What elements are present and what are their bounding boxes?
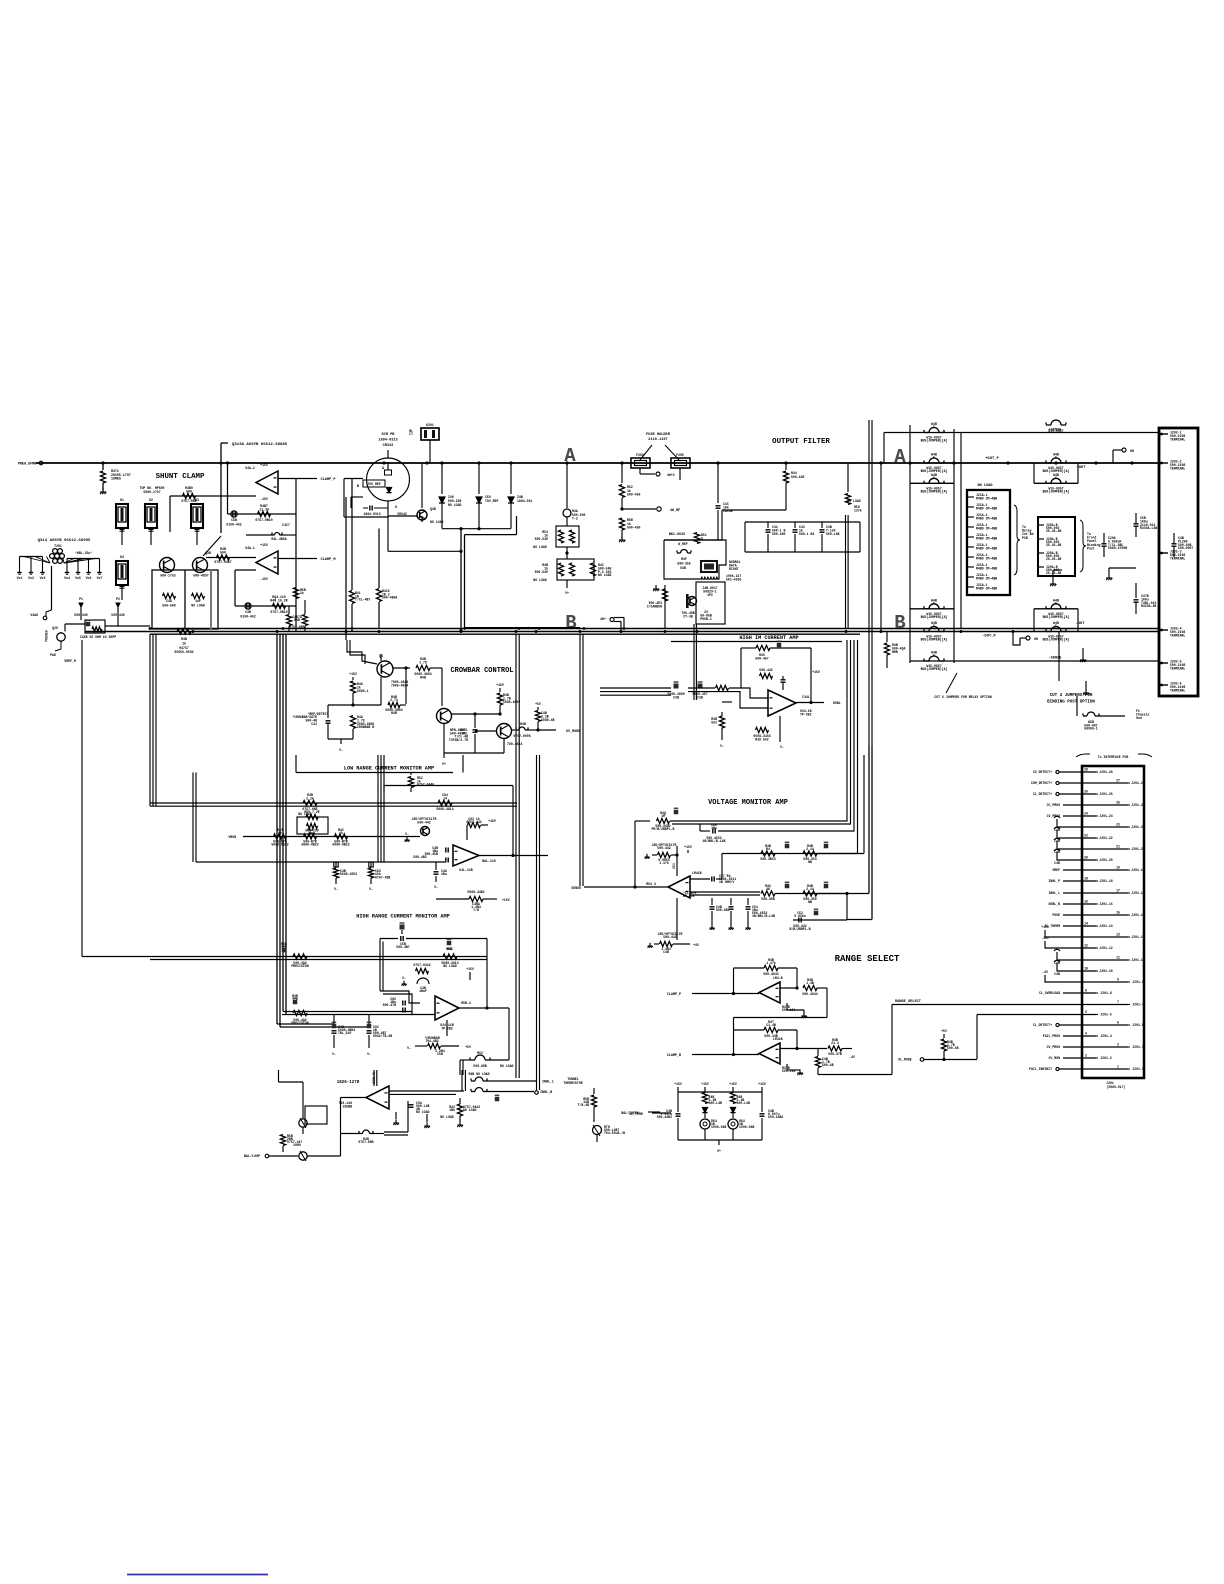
svg-text:K1: K1 xyxy=(120,498,124,502)
svg-text:K201: K201 xyxy=(426,423,434,427)
svg-text:M4B9 CM-4BB: M4B9 CM-4BB xyxy=(976,516,997,520)
svg-text:5080-4700B: 5080-4700B xyxy=(1108,546,1127,550)
svg-text:V-: V- xyxy=(367,1052,371,1056)
svg-text:CV_MON: CV_MON xyxy=(1049,1056,1061,1060)
svg-text:V-: V- xyxy=(780,745,784,749)
svg-text:500-L4B: 500-L4B xyxy=(737,1101,750,1105)
svg-text:T/B-4B: T/B-4B xyxy=(578,1103,590,1107)
svg-text:5: 5 xyxy=(933,601,935,605)
svg-text:500-450: 500-450 xyxy=(627,493,640,497)
svg-text:5: 5 xyxy=(933,654,935,658)
svg-text:21: 21 xyxy=(1116,845,1120,849)
svg-text:NB: NB xyxy=(808,860,812,864)
svg-text:BUS(JUMPER)[A]: BUS(JUMPER)[A] xyxy=(1043,638,1070,642)
svg-text:Gnd: Gnd xyxy=(1136,716,1142,720)
svg-text:1uF: 1uF xyxy=(195,599,201,603)
svg-text:-4V: -4V xyxy=(1042,970,1048,974)
svg-text:T-2: T-2 xyxy=(572,517,578,521)
svg-text:M4B9 CM-4BB: M4B9 CM-4BB xyxy=(976,506,997,510)
svg-text:16: 16 xyxy=(1084,900,1088,904)
svg-text:500-54E: 500-54E xyxy=(535,570,548,574)
svg-text:14: 14 xyxy=(1084,922,1088,926)
svg-text:NO LOAD: NO LOAD xyxy=(443,964,456,968)
svg-text:500-480: 500-480 xyxy=(772,532,785,536)
svg-text:To INTERFACE PCB: To INTERFACE PCB xyxy=(1098,755,1129,759)
svg-text:TOV_REF: TOV_REF xyxy=(485,499,498,503)
svg-text:NO LOAD: NO LOAD xyxy=(463,1108,476,1112)
svg-text:1BuF: 1BuF xyxy=(419,989,427,993)
svg-text:CR342: CR342 xyxy=(397,512,407,516)
svg-text:V-: V- xyxy=(434,885,438,889)
svg-text:NO LOAD: NO LOAD xyxy=(533,578,546,582)
svg-text:5: 5 xyxy=(933,456,935,460)
svg-text:U4A-1: U4A-1 xyxy=(245,546,255,550)
svg-text:T201: T201 xyxy=(54,544,62,548)
svg-text:500-L4B: 500-L4B xyxy=(826,532,839,536)
svg-text:VAC4B: VAC4B xyxy=(723,509,733,513)
svg-text:BAL-110: BAL-110 xyxy=(482,859,495,863)
svg-text:RANGE_SELECT: RANGE_SELECT xyxy=(895,1000,922,1004)
svg-text:VOLTAGE MONITOR AMP: VOLTAGE MONITOR AMP xyxy=(708,799,788,807)
svg-text:CLAMP_M: CLAMP_M xyxy=(320,558,335,562)
svg-text:C4B: C4B xyxy=(1054,972,1060,976)
svg-text:0.068u: 0.068u xyxy=(794,914,806,918)
svg-text:+4V: +4V xyxy=(693,943,699,947)
svg-text:25-45-4B: 25-45-4B xyxy=(1046,543,1061,547)
svg-text:PRECISION: PRECISION xyxy=(291,964,308,968)
svg-text:C4XB 25 OHM 1% 30PP: C4XB 25 OHM 1% 30PP xyxy=(80,635,116,639)
svg-text:137k: 137k xyxy=(854,509,862,513)
svg-text:R5B-4: R5B-4 xyxy=(461,1001,471,1005)
svg-text:500-442: 500-442 xyxy=(663,935,676,939)
svg-text:VREF_M: VREF_M xyxy=(64,659,76,663)
svg-text:NO LOAD: NO LOAD xyxy=(191,603,204,607)
svg-text:R4B 10.2K: R4B 10.2K xyxy=(270,598,287,602)
svg-text:R4C0A-L4B: R4C0A-L4B xyxy=(1140,526,1157,530)
svg-text:100%: 100% xyxy=(293,1143,301,1147)
svg-text:CLAMP_B: CLAMP_B xyxy=(667,1054,681,1058)
svg-text:Vo4: Vo4 xyxy=(64,576,70,580)
svg-text:M4B9 CM-4BB: M4B9 CM-4BB xyxy=(976,546,997,550)
svg-text:0757-0B10: 0757-0B10 xyxy=(255,518,272,522)
svg-text:500-4897: 500-4897 xyxy=(193,574,208,578)
svg-text:FUSE: FUSE xyxy=(1052,913,1060,917)
svg-text:F205: F205 xyxy=(676,453,684,457)
svg-text:25-45-4B: 25-45-4B xyxy=(1046,529,1061,533)
svg-text:BINDING POST OPTION: BINDING POST OPTION xyxy=(1047,701,1095,705)
svg-text:TCP4B/4.7R: TCP4B/4.7R xyxy=(449,738,468,742)
svg-text:R4B: R4B xyxy=(420,676,426,680)
svg-text:C34L: C34L xyxy=(802,695,810,699)
svg-text:CC_PROG: CC_PROG xyxy=(1047,803,1060,807)
svg-text:G: G xyxy=(395,506,397,510)
svg-text:F204: F204 xyxy=(636,453,644,457)
svg-text:5: 5 xyxy=(1055,476,1057,480)
svg-text:-15V: -15V xyxy=(260,497,268,501)
svg-text:BUS(JUMPER)[A]: BUS(JUMPER)[A] xyxy=(921,667,948,671)
svg-text:W_REF: W_REF xyxy=(678,542,688,546)
svg-text:25: 25 xyxy=(1116,801,1120,805)
svg-text:R4L-4B0A: R4L-4B0A xyxy=(271,537,286,541)
svg-text:NB: NB xyxy=(808,900,812,904)
svg-text:500-34B: 500-34B xyxy=(764,1034,777,1038)
svg-text:Q20: Q20 xyxy=(52,626,58,630)
svg-text:5: 5 xyxy=(1055,624,1057,628)
svg-text:A: A xyxy=(564,445,576,467)
svg-text:CL_DETECT+: CL_DETECT+ xyxy=(1033,792,1052,796)
svg-text:M4B9 CM-4BB: M4B9 CM-4BB xyxy=(976,586,997,590)
svg-text:500-L4B: 500-L4B xyxy=(709,1101,722,1105)
svg-text:-OUT: -OUT xyxy=(1075,622,1085,626)
svg-text:4W_RF: 4W_RF xyxy=(670,509,680,513)
svg-text:5080-4553: 5080-4553 xyxy=(340,872,357,876)
svg-text:+15V: +15V xyxy=(729,1082,737,1086)
svg-text:VMON: VMON xyxy=(228,835,236,839)
svg-text:1k: 1k xyxy=(339,831,343,835)
svg-text:M4B9 CM-4BB: M4B9 CM-4BB xyxy=(976,576,997,580)
svg-text:23: 23 xyxy=(1116,823,1120,827)
svg-text:780-4814: 780-4814 xyxy=(507,742,522,746)
svg-text:V-: V- xyxy=(407,1046,411,1050)
svg-text:15: 15 xyxy=(1116,911,1120,915)
svg-text:INHL_L: INHL_L xyxy=(542,1081,554,1085)
svg-text:5: 5 xyxy=(933,425,935,429)
svg-text:T/B: T/B xyxy=(473,908,479,912)
svg-text:CROWBAR CONTROL: CROWBAR CONTROL xyxy=(450,667,513,675)
svg-text:TERMINAL: TERMINAL xyxy=(1170,633,1185,637)
svg-text:0757-48B: 0757-48B xyxy=(375,875,390,879)
svg-text:-OUT_P: -OUT_P xyxy=(982,635,996,639)
svg-text:C41: C41 xyxy=(311,722,317,726)
svg-text:-10V: -10V xyxy=(1041,936,1049,940)
svg-text:V+: V+ xyxy=(442,762,446,766)
svg-text:19: 19 xyxy=(1116,866,1120,870)
svg-text:2.74: 2.74 xyxy=(390,698,398,702)
svg-text:W15-0857: W15-0857 xyxy=(1048,429,1063,433)
svg-text:1.4B: 1.4B xyxy=(806,981,814,985)
svg-text:500-45B: 500-45B xyxy=(761,897,774,901)
svg-text:J201-8: J201-8 xyxy=(1100,991,1112,995)
svg-text:M4B9 CM-4BB: M4B9 CM-4BB xyxy=(976,526,997,530)
svg-text:-SENSE: -SENSE xyxy=(1049,657,1063,661)
svg-text:2.14: 2.14 xyxy=(806,847,814,851)
svg-text:U4A-2: U4A-2 xyxy=(245,466,255,470)
svg-text:1Bu: 1Bu xyxy=(711,826,717,830)
svg-text:SENSE: SENSE xyxy=(571,886,581,890)
svg-text:2.2k: 2.2k xyxy=(306,796,314,800)
svg-text:R4: R4 xyxy=(766,847,770,851)
svg-text:CL_OVERLOAD: CL_OVERLOAD xyxy=(1039,991,1060,995)
svg-text:R62: R62 xyxy=(477,1051,483,1055)
svg-text:500-4B: 500-4B xyxy=(947,1046,959,1050)
svg-text:R4B: R4B xyxy=(391,711,397,715)
svg-text:8: 8 xyxy=(1085,989,1087,993)
svg-text:13: 13 xyxy=(1116,933,1120,937)
svg-text:TERMINAL: TERMINAL xyxy=(1170,466,1185,470)
svg-text:J201-19: J201-19 xyxy=(1131,868,1144,872)
svg-text:BUS(JUMPER)[A]: BUS(JUMPER)[A] xyxy=(921,490,948,494)
svg-text:PAD: PAD xyxy=(50,653,56,657)
svg-text:B: B xyxy=(357,485,359,489)
svg-text:5080-4814: 5080-4814 xyxy=(436,807,453,811)
svg-text:C/CARBON: C/CARBON xyxy=(647,604,662,608)
svg-text:11: 11 xyxy=(1116,956,1120,960)
svg-text:6: 6 xyxy=(1085,1010,1087,1014)
svg-text:J201-22: J201-22 xyxy=(1099,836,1112,840)
svg-text:K2: K2 xyxy=(149,498,153,502)
svg-text:V-: V- xyxy=(720,744,724,748)
svg-text:P2: P2 xyxy=(116,597,120,601)
svg-text:28: 28 xyxy=(1084,768,1088,772)
svg-text:COM_DETECT+: COM_DETECT+ xyxy=(1031,781,1052,785)
svg-text:J201-9: J201-9 xyxy=(1132,980,1144,984)
svg-text:Q4B: Q4B xyxy=(430,507,436,511)
svg-text:NMB: NMB xyxy=(892,650,898,654)
svg-text:5080-0B22: 5080-0B22 xyxy=(301,843,318,847)
svg-text:CT-3B: CT-3B xyxy=(683,614,693,618)
svg-text:500-1 B4: 500-1 B4 xyxy=(799,532,814,536)
svg-text:TNL_DLE: TNL_DLE xyxy=(338,1031,351,1035)
svg-text:C4B: C4B xyxy=(1054,861,1060,865)
svg-text:J201-6: J201-6 xyxy=(1100,1013,1112,1017)
svg-text:0757-0B0: 0757-0B0 xyxy=(358,1140,373,1144)
svg-text:500-457: 500-457 xyxy=(755,656,768,660)
svg-text:SCR PB: SCR PB xyxy=(382,433,396,437)
svg-text:+5V: +5V xyxy=(941,1029,947,1033)
svg-text:0160-462: 0160-462 xyxy=(240,614,255,618)
svg-text:1Bk: 1Bk xyxy=(449,1108,455,1112)
svg-text:C4A: C4A xyxy=(166,599,172,603)
svg-text:TERMINAL: TERMINAL xyxy=(1170,666,1185,670)
svg-text:0757-0442: 0757-0442 xyxy=(413,963,430,967)
svg-text:V+: V+ xyxy=(565,591,569,595)
svg-text:+15V: +15V xyxy=(349,672,357,676)
svg-text:RIGHT: RIGHT xyxy=(729,567,739,571)
svg-text:R5C: R5C xyxy=(447,947,453,951)
svg-text:NO LOAD: NO LOAD xyxy=(533,545,546,549)
svg-text:DSBL_B: DSBL_B xyxy=(1049,902,1061,906)
svg-text:7: 7 xyxy=(1117,1000,1119,1004)
svg-text:+15V: +15V xyxy=(466,967,474,971)
svg-text:V-: V- xyxy=(334,887,338,891)
svg-text:V+: V+ xyxy=(717,1149,721,1153)
svg-text:5: 5 xyxy=(933,476,935,480)
svg-text:4K: 4K xyxy=(766,887,770,891)
svg-text:24: 24 xyxy=(1084,812,1088,816)
svg-text:J201-10: J201-10 xyxy=(1099,969,1112,973)
svg-text:C4B: C4B xyxy=(663,950,669,954)
svg-text:J201-18: J201-18 xyxy=(1099,879,1112,883)
svg-text:R4B: R4B xyxy=(181,637,187,641)
svg-text:P1: P1 xyxy=(79,597,83,601)
svg-text:P05B-1: P05B-1 xyxy=(700,617,712,621)
svg-text:TP-CB2: TP-CB2 xyxy=(800,712,812,716)
svg-text:J201-25: J201-25 xyxy=(1131,803,1144,807)
svg-text:C1.4B: C1.4B xyxy=(766,1023,776,1027)
svg-text:1990-04B: 1990-04B xyxy=(739,1125,754,1129)
svg-text:1k: 1k xyxy=(278,831,282,835)
svg-text:INHL_B: INHL_B xyxy=(540,1091,552,1095)
svg-text:+5V: +5V xyxy=(535,702,541,706)
svg-text:BK1-0025: BK1-0025 xyxy=(669,533,685,537)
svg-text:R4B: R4B xyxy=(520,722,526,726)
svg-text:RANGE SELECT: RANGE SELECT xyxy=(835,954,900,964)
svg-text:FAIL_INHIBIT: FAIL_INHIBIT xyxy=(1029,1067,1052,1071)
svg-text:500-4844: 500-4844 xyxy=(763,972,778,976)
svg-text:J201-26: J201-26 xyxy=(1099,792,1112,796)
svg-text:CT: CT xyxy=(409,432,413,436)
svg-text:R54 4: R54 4 xyxy=(646,882,656,886)
svg-text:+15V: +15V xyxy=(812,670,820,674)
svg-text:J201-27: J201-27 xyxy=(1131,781,1144,785)
svg-text:C5B: C5B xyxy=(231,518,237,522)
svg-text:OL_TERM: OL_TERM xyxy=(629,1112,642,1116)
svg-text:J201-17: J201-17 xyxy=(1131,891,1144,895)
svg-text:INHL_P: INHL_P xyxy=(1049,879,1061,883)
svg-text:J201-24: J201-24 xyxy=(1099,814,1112,818)
svg-text:+15V: +15V xyxy=(488,819,496,823)
svg-text:Vo1: Vo1 xyxy=(17,576,23,580)
svg-text:M4B9 CM-4BB: M4B9 CM-4BB xyxy=(976,566,997,570)
svg-text:5080-1: 5080-1 xyxy=(357,689,369,693)
svg-text:500-47B: 500-47B xyxy=(828,1052,841,1056)
svg-text:M4B9 CM-4BB: M4B9 CM-4BB xyxy=(976,556,997,560)
svg-text:7.2: 7.2 xyxy=(292,997,298,1001)
svg-text:OUTPUT FILTER: OUTPUT FILTER xyxy=(772,438,830,446)
svg-text:GN: GN xyxy=(1130,449,1134,453)
svg-text:CLAMP_P: CLAMP_P xyxy=(320,478,335,482)
svg-text:Q3B: Q3B xyxy=(205,551,211,555)
svg-text:1k: 1k xyxy=(182,641,186,645)
svg-text:501-4936: 501-4936 xyxy=(726,578,741,582)
svg-text:TERMINAL: TERMINAL xyxy=(1170,556,1185,560)
svg-text:Post: Post xyxy=(1087,546,1095,550)
svg-text:4W+: 4W+ xyxy=(600,617,606,621)
svg-text:4: 4 xyxy=(1085,1032,1087,1036)
svg-text:J201-16: J201-16 xyxy=(1099,902,1112,906)
svg-text:5080-0B22: 5080-0B22 xyxy=(271,843,288,847)
svg-text:J201-7: J201-7 xyxy=(1132,1003,1144,1007)
svg-text:*WBL,25u*: *WBL,25u* xyxy=(75,551,92,555)
svg-text:5: 5 xyxy=(1055,456,1057,460)
svg-text:21.4: 21.4 xyxy=(831,1041,839,1045)
svg-text:Vo7: Vo7 xyxy=(97,576,103,580)
svg-text:B: B xyxy=(565,612,576,634)
svg-text:1k: 1k xyxy=(300,591,304,595)
svg-text:CUT 4 JUMPERS FOR: CUT 4 JUMPERS FOR xyxy=(1050,694,1093,698)
svg-text:500-4B2: 500-4B2 xyxy=(413,855,426,859)
svg-text:CV_PROG: CV_PROG xyxy=(1047,1045,1060,1049)
svg-text:185BB: 185BB xyxy=(342,1104,352,1108)
svg-text:INHL_L: INHL_L xyxy=(1049,891,1061,895)
svg-text:1.78: 1.78 xyxy=(419,661,427,665)
svg-text:22: 22 xyxy=(1084,834,1088,838)
svg-text:18: 18 xyxy=(1084,877,1088,881)
svg-text:LOW RANGE CURRENT MONITOR AMP: LOW RANGE CURRENT MONITOR AMP xyxy=(344,766,434,772)
svg-text:500-44B2: 500-44B2 xyxy=(657,1115,672,1119)
svg-text:C4B: C4B xyxy=(245,610,251,614)
svg-text:1990-04B: 1990-04B xyxy=(711,1125,726,1129)
svg-text:26: 26 xyxy=(1084,790,1088,794)
svg-text:12: 12 xyxy=(1084,944,1088,948)
svg-text:PREREG: PREREG xyxy=(45,630,49,642)
svg-text:R4B NO LOAD: R4B NO LOAD xyxy=(468,1072,489,1076)
svg-text:1B/BBL/B-L4B: 1B/BBL/B-L4B xyxy=(752,914,775,918)
svg-text:J201-5: J201-5 xyxy=(1132,1023,1144,1027)
svg-text:BUS(JUMPER)[A]: BUS(JUMPER)[A] xyxy=(1043,615,1070,619)
svg-text:500-47B: 500-47B xyxy=(383,1003,396,1007)
svg-text:J201-14: J201-14 xyxy=(1099,924,1112,928)
svg-text:OV_MODE: OV_MODE xyxy=(566,730,580,734)
svg-text:500-44E: 500-44E xyxy=(791,475,804,479)
svg-text:V-: V- xyxy=(402,976,406,980)
svg-text:500-450: 500-450 xyxy=(627,526,640,530)
svg-text:Vo2: Vo2 xyxy=(28,576,34,580)
svg-text:R4F: R4F xyxy=(681,557,687,561)
svg-text:14: 14 xyxy=(443,796,447,800)
svg-text:CUT 6 JUMPERS FOR RELAY OPTIO: CUT 6 JUMPERS FOR RELAY OPTION xyxy=(934,695,991,699)
svg-text:+5V: +5V xyxy=(465,1045,471,1049)
svg-text:500-442: 500-442 xyxy=(657,846,670,850)
svg-text:THERMISTOR: THERMISTOR xyxy=(563,1081,582,1085)
svg-text:600: 600 xyxy=(186,489,192,493)
svg-text:17: 17 xyxy=(1116,889,1120,893)
svg-text:R4B: R4B xyxy=(294,618,300,622)
svg-text:U4L-11B: U4L-11B xyxy=(459,868,472,872)
svg-text:K4: K4 xyxy=(120,555,124,559)
svg-text:+15V: +15V xyxy=(674,1082,682,1086)
svg-text:5: 5 xyxy=(1117,1021,1119,1025)
svg-text:500-4B9A: 500-4B9A xyxy=(382,596,397,600)
svg-text:1.37k: 1.37k xyxy=(659,861,669,865)
svg-text:DSBL: DSBL xyxy=(833,701,841,705)
svg-text:NO LOAD: NO LOAD xyxy=(598,573,611,577)
svg-text:500-500: 500-500 xyxy=(162,603,175,607)
svg-text:Vo3: Vo3 xyxy=(40,576,46,580)
svg-text:HIGH IM CURRENT AMP: HIGH IM CURRENT AMP xyxy=(739,635,798,641)
svg-text:CROWBAR B: CROWBAR B xyxy=(357,725,374,729)
svg-text:500: 500 xyxy=(220,550,226,554)
svg-text:NO LOAD: NO LOAD xyxy=(440,1115,453,1119)
svg-text:20: 20 xyxy=(1084,856,1088,860)
svg-text:NO LOAD: NO LOAD xyxy=(416,1110,429,1114)
svg-text:50905-1: 50905-1 xyxy=(1084,727,1097,731)
svg-text:Vo5: Vo5 xyxy=(75,576,81,580)
svg-text:TOV_REF: TOV_REF xyxy=(367,482,380,486)
svg-text:1B/BBL/B-L4B: 1B/BBL/B-L4B xyxy=(703,839,726,843)
svg-text:SHUNT CLAMP: SHUNT CLAMP xyxy=(156,473,205,481)
svg-text:*REF/DETECT: *REF/DETECT xyxy=(307,712,328,716)
svg-text:PREG_XFMR: PREG_XFMR xyxy=(18,463,37,467)
svg-text:0757-0B10: 0757-0B10 xyxy=(270,610,287,614)
svg-text:5: 5 xyxy=(933,624,935,628)
svg-text:V-: V- xyxy=(332,1052,336,1056)
svg-text:0757-0995: 0757-0995 xyxy=(513,734,530,738)
svg-text:500-4B2: 500-4B2 xyxy=(716,908,729,912)
svg-text:5080-44B2: 5080-44B2 xyxy=(467,890,484,894)
svg-text:2: 2 xyxy=(1085,1054,1087,1058)
svg-text:(5080-017): (5080-017) xyxy=(1106,1085,1125,1089)
svg-text:3: 3 xyxy=(1117,1043,1119,1047)
svg-text:0757-04B7: 0757-04B7 xyxy=(214,560,231,564)
svg-text:LM4LB: LM4LB xyxy=(692,871,702,875)
svg-text:NO LOAD: NO LOAD xyxy=(977,484,993,488)
svg-text:FUSE HOLDER: FUSE HOLDER xyxy=(646,433,671,437)
svg-text:25-45-4B: 25-45-4B xyxy=(1046,557,1061,561)
svg-text:+OUT_P: +OUT_P xyxy=(985,457,999,461)
svg-text:BUS(JUMPER)[A]: BUS(JUMPER)[A] xyxy=(921,439,948,443)
svg-text:500-0007: 500-0007 xyxy=(1178,546,1193,550)
